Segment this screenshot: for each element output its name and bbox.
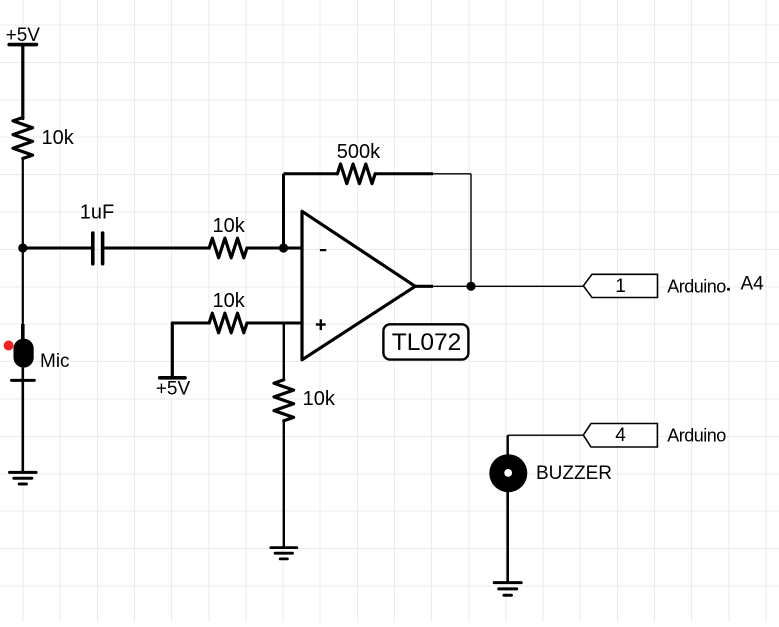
label R4 value 500k [337, 141, 381, 163]
label Mic [40, 351, 70, 372]
wire +5V bar to R1 top [21, 45, 24, 119]
pin flag 4 (Arduino) [583, 424, 657, 448]
wire feedback top right thick segment [375, 172, 433, 175]
ground (below buzzer) [494, 583, 521, 596]
power +5V (lower, at R3) [160, 376, 185, 380]
label A4 [741, 274, 765, 295]
resistor R5 10k (to ground, vertical) [274, 380, 294, 421]
label Arduino (pin 4) [667, 426, 726, 446]
wire tee down to R5 [283, 323, 285, 380]
wire feedback top left segment [284, 172, 338, 175]
wire op-amp output to pin 1 [433, 285, 583, 287]
wire R5 bottom to ground [283, 421, 285, 548]
label R2 value 10k [212, 215, 245, 237]
buzzer BZ1 body [489, 454, 527, 492]
label R1 value 10k [42, 127, 75, 149]
label +5V (top left) [6, 25, 41, 46]
op-amp output stub [415, 285, 433, 288]
resistor R2 10k (series input, horizontal) [209, 238, 247, 258]
junction node A (mic / C1 / R1) [18, 243, 27, 252]
microphone lower crossbar [12, 379, 35, 382]
svg-text:Mic: Mic [40, 351, 70, 372]
svg-text:4: 4 [615, 425, 626, 446]
label +5V (lower) [156, 378, 191, 399]
svg-text:500k: 500k [337, 141, 381, 163]
ground (below R5) [271, 548, 297, 559]
label R3 value 10k [212, 290, 245, 312]
svg-text:10k: 10k [42, 127, 75, 149]
wire +5V riser to R3 [172, 323, 209, 378]
power +5V (top left) [9, 43, 36, 47]
svg-text:+5V: +5V [6, 25, 41, 46]
wire R1 bottom to mic node [22, 159, 24, 249]
op-amp inverting input minus sign [320, 249, 326, 251]
svg-text:10k: 10k [212, 215, 245, 237]
svg-text:10k: 10k [303, 388, 336, 410]
wire feedback thin segment to output riser [433, 173, 471, 175]
label R5 value 10k [303, 388, 336, 410]
resistor R3 10k (to +5V, horizontal) [209, 313, 247, 333]
wire feedback left riser (node B up) [282, 174, 285, 248]
wire mic to ground [21, 368, 24, 473]
pin flag 1 (Arduino A4) [583, 274, 657, 297]
svg-text:1: 1 [615, 276, 626, 297]
label box TL072 [383, 324, 468, 359]
svg-text:TL072: TL072 [392, 329, 461, 356]
ground (below mic) [10, 472, 37, 484]
resistor R1 10k (mic bias, vertical) [13, 118, 33, 159]
svg-text:Arduino: Arduino [667, 426, 726, 446]
microphone MIC1 body [14, 339, 34, 368]
label BUZZER [536, 463, 612, 484]
microphone polarity red dot [4, 341, 14, 351]
svg-text:1uF: 1uF [80, 202, 114, 224]
wire R2 to op-amp inverting input [247, 247, 302, 250]
op-amp non-inverting input plus sign [316, 319, 326, 330]
wire pin 4 to buzzer [508, 435, 583, 456]
svg-text:10k: 10k [212, 290, 245, 312]
svg-text:A4: A4 [741, 274, 765, 295]
svg-text:Arduino: Arduino [667, 277, 726, 297]
wire R3 to op-amp non-inverting input [247, 322, 302, 325]
op-amp U1 TL072 triangle [302, 211, 415, 359]
junction node B (inverting input / feedback) [279, 243, 288, 252]
wire node A to C1 left plate [23, 247, 91, 250]
wire node A down to mic [22, 248, 24, 339]
svg-text:BUZZER: BUZZER [536, 463, 612, 484]
label dot separator [727, 288, 730, 291]
capacitor C1 1uF [93, 233, 103, 264]
wire C1 right plate to R2 [104, 247, 209, 250]
svg-text:+5V: +5V [156, 378, 191, 399]
resistor R4 500k (feedback, horizontal) [337, 164, 375, 184]
label C1 value 1uF [80, 202, 114, 224]
label Arduino (pin 1) [667, 277, 726, 297]
junction node C (output / feedback) [466, 282, 475, 291]
wire feedback output riser (down to output node) [470, 174, 472, 286]
wire buzzer to ground [506, 492, 509, 583]
